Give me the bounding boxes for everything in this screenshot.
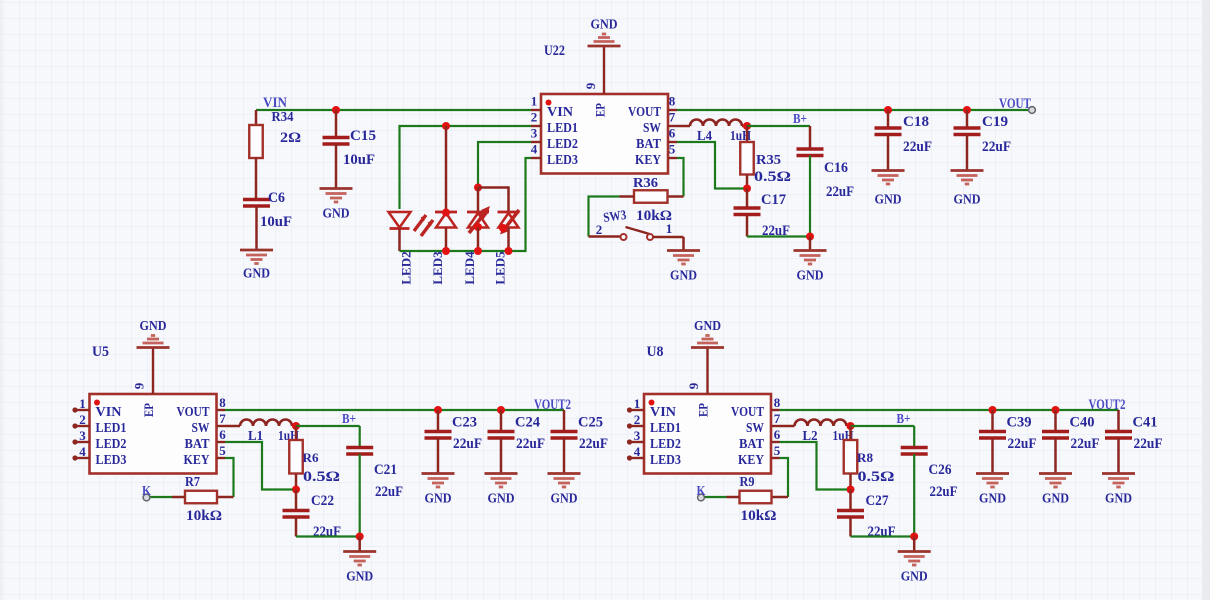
svg-text:10uF: 10uF: [260, 214, 292, 230]
svg-text:VIN: VIN: [547, 105, 573, 120]
svg-text:1: 1: [531, 94, 538, 109]
svg-text:GND: GND: [875, 193, 902, 208]
wire R6 top lead: [295, 426, 298, 440]
LED D3 (pointing up): [435, 212, 457, 228]
wire KEY net (U5): [225, 458, 234, 497]
ground GND under C21: [343, 552, 376, 566]
junction C40 tap: [1052, 406, 1060, 414]
wire R35 bottom lead: [746, 175, 749, 189]
junction LED2 net split: [474, 184, 482, 192]
svg-text:C19: C19: [982, 114, 1008, 130]
svg-text:L2: L2: [803, 428, 818, 443]
LED D5 (pointing up): [498, 212, 520, 228]
svg-text:C15: C15: [350, 128, 376, 144]
svg-text:LED3: LED3: [547, 153, 578, 168]
resistor R6: [289, 440, 303, 474]
capacitor C26: [901, 448, 928, 455]
svg-text:U5: U5: [92, 344, 109, 360]
port K port (U8): [698, 494, 705, 501]
svg-text:C21: C21: [374, 462, 397, 478]
svg-text:10uF: 10uF: [343, 152, 375, 168]
svg-text:C40: C40: [1070, 415, 1095, 431]
ground GND under C25: [548, 474, 581, 488]
wire R34-C6 lead: [255, 158, 258, 199]
wire L2 output lead: [847, 425, 851, 428]
wire L1 input lead: [225, 425, 240, 428]
svg-text:10kΩ: 10kΩ: [186, 508, 222, 524]
junction LED1 net / D2: [442, 122, 450, 130]
junction C39 tap: [989, 406, 997, 414]
svg-text:2: 2: [531, 110, 538, 125]
svg-text:LED1: LED1: [650, 421, 681, 436]
wire R36 left lead: [620, 195, 635, 198]
junction U8 SW node: [847, 422, 855, 430]
U5 pin stubs left (unconnected): [72, 407, 89, 460]
wire LED1 net: [400, 126, 532, 209]
wire C21 top wire: [359, 426, 361, 447]
svg-text:VOUT: VOUT: [177, 405, 211, 420]
svg-text:2: 2: [79, 412, 86, 427]
wire D3 lead: [477, 188, 480, 212]
wire R36 right lead: [668, 195, 684, 198]
wire C22 bottom lead: [295, 517, 298, 537]
svg-text:R7: R7: [185, 474, 200, 489]
wire C40 bottom lead: [1054, 438, 1057, 473]
U22 pin-1 marker: [546, 100, 552, 106]
svg-text:22uF: 22uF: [579, 436, 608, 452]
wire C21 bottom wire: [359, 454, 361, 537]
svg-text:C39: C39: [1007, 415, 1032, 431]
wire D4 cathode lead: [477, 228, 480, 252]
capacitor C41: [1105, 432, 1132, 439]
ground GND under C16: [794, 251, 827, 265]
wire C39 bottom lead: [991, 438, 994, 473]
capacitor C24: [488, 432, 515, 439]
wire LED2 net: [478, 142, 531, 188]
svg-text:9: 9: [686, 382, 701, 389]
svg-text:R34: R34: [272, 109, 294, 124]
svg-text:9: 9: [132, 382, 147, 389]
svg-text:GND: GND: [670, 269, 697, 284]
wire C26 top wire: [913, 426, 915, 447]
svg-text:B+: B+: [897, 411, 911, 426]
wire C41 bottom lead: [1117, 438, 1120, 473]
IC U22 body: [541, 94, 668, 174]
svg-text:3: 3: [531, 126, 538, 141]
svg-text:GND: GND: [694, 319, 721, 334]
wire R36-SW3 net: [589, 197, 620, 237]
svg-text:C17: C17: [761, 192, 786, 208]
svg-text:4: 4: [634, 444, 641, 459]
port VOUT port: [1029, 107, 1036, 114]
port K port (U5): [143, 494, 150, 501]
svg-text:C23: C23: [452, 415, 477, 431]
LED D4 (pointing up): [467, 212, 489, 228]
capacitor C22: [283, 511, 310, 518]
junction D3 top: [442, 209, 450, 217]
ground GND under SW3: [667, 251, 700, 265]
wire B+ net (U8): [851, 425, 915, 427]
junction return/D3: [442, 247, 450, 255]
wire C18 bottom lead: [887, 135, 890, 171]
svg-text:10kΩ: 10kΩ: [741, 508, 777, 524]
wire LED return net: [400, 158, 532, 251]
wire C17-C16 gnd link: [747, 235, 810, 237]
svg-text:1: 1: [79, 396, 86, 411]
svg-text:C24: C24: [515, 415, 540, 431]
svg-text:6: 6: [669, 126, 676, 141]
svg-text:K: K: [142, 484, 151, 499]
junction C16/C17 gnd node: [806, 233, 814, 241]
resistor R8: [844, 440, 858, 474]
svg-text:5: 5: [669, 142, 676, 157]
svg-text:1: 1: [666, 221, 673, 236]
wire U5 VOUT net: [225, 409, 564, 411]
LED D2 light arrows: [414, 215, 433, 236]
resistor R9: [740, 491, 772, 504]
svg-text:7: 7: [219, 411, 226, 426]
svg-text:22uF: 22uF: [1071, 436, 1100, 452]
U5 top pin lead: [152, 348, 154, 394]
svg-text:C6: C6: [268, 190, 285, 206]
svg-text:3: 3: [79, 428, 86, 443]
svg-text:EP: EP: [142, 403, 156, 417]
inductor L2: [795, 420, 847, 426]
svg-text:LED2: LED2: [547, 137, 578, 152]
svg-text:BAT: BAT: [739, 437, 765, 452]
svg-text:EP: EP: [594, 103, 608, 117]
wire gnd lead (U8): [913, 537, 916, 552]
svg-text:8: 8: [669, 94, 676, 109]
svg-text:VOUT2: VOUT2: [534, 397, 571, 413]
junction D4 bottom: [474, 223, 482, 231]
wire SW3-GND lead: [682, 237, 685, 250]
svg-text:GND: GND: [797, 269, 824, 284]
svg-text:1: 1: [634, 396, 641, 411]
wire D4 lead: [478, 188, 509, 212]
svg-text:C22: C22: [311, 493, 334, 509]
svg-text:22uF: 22uF: [1008, 436, 1037, 452]
ground GND under C18: [872, 171, 905, 185]
wire R7 left lead: [172, 496, 185, 499]
junction C24 tap: [497, 406, 505, 414]
svg-text:GND: GND: [901, 570, 928, 585]
svg-text:B+: B+: [793, 111, 807, 126]
junction R35/C17/BAT: [743, 185, 751, 193]
capacitor C21: [346, 448, 373, 455]
svg-text:0.5Ω: 0.5Ω: [754, 169, 791, 185]
svg-text:GND: GND: [243, 267, 270, 282]
wire C40 top lead: [1054, 410, 1057, 431]
wire R6 bottom lead: [295, 474, 298, 490]
svg-text:R9: R9: [740, 474, 755, 489]
svg-text:LED2: LED2: [96, 437, 127, 452]
svg-text:LED3: LED3: [430, 251, 445, 285]
wire VOUT net: [677, 109, 1030, 111]
ground GND under C26: [898, 552, 931, 566]
capacitor C18: [875, 128, 902, 135]
svg-text:5: 5: [219, 443, 226, 458]
ground GND under C15: [320, 189, 353, 203]
svg-text:LED1: LED1: [547, 121, 578, 136]
ground GND under C19: [951, 171, 984, 185]
svg-text:U8: U8: [647, 344, 664, 360]
svg-text:C18: C18: [903, 114, 929, 130]
svg-text:BAT: BAT: [185, 437, 211, 452]
U8 pin-1 marker: [649, 400, 655, 406]
IC U5 body: [90, 394, 217, 474]
svg-text:L1: L1: [248, 428, 263, 443]
wire R8 top lead: [849, 426, 852, 440]
svg-text:VOUT: VOUT: [731, 405, 765, 420]
svg-text:5: 5: [774, 443, 781, 458]
svg-text:VOUT: VOUT: [999, 96, 1031, 112]
junction C21/C22 gnd node: [356, 533, 364, 541]
capacitor C40: [1042, 432, 1069, 439]
wire R9 right lead: [772, 496, 789, 499]
wire BAT net (U5): [225, 442, 293, 490]
wire C6 bottom lead: [255, 206, 258, 250]
wire K net (U5): [150, 496, 172, 498]
svg-text:LED3: LED3: [650, 453, 681, 468]
junction C26/C27 gnd node: [910, 533, 918, 541]
svg-text:4: 4: [79, 444, 86, 459]
junction R6/C22 node: [292, 486, 300, 494]
wire C41 top lead: [1117, 410, 1120, 431]
svg-text:B+: B+: [342, 411, 356, 426]
svg-text:C41: C41: [1133, 415, 1158, 431]
capacitor C27: [837, 511, 864, 518]
wire D2 anode lead: [445, 126, 448, 212]
wire D5 cathode lead: [507, 228, 510, 252]
wire B+ net (U5): [296, 425, 360, 427]
wire R34 top lead: [255, 110, 258, 125]
ground GND under C23: [422, 474, 455, 488]
svg-text:6: 6: [219, 427, 226, 442]
wire C18 top lead: [887, 110, 890, 127]
wire VIN net: [256, 109, 531, 111]
wire C15 bottom lead: [335, 144, 338, 188]
ground GND above U8: [691, 336, 724, 348]
wire K net (U8): [705, 496, 727, 498]
svg-text:0.5Ω: 0.5Ω: [858, 469, 895, 485]
wire R9 left lead: [727, 496, 740, 499]
LED D2 (pointing down): [389, 212, 411, 229]
svg-text:2Ω: 2Ω: [280, 130, 301, 146]
svg-text:R6: R6: [303, 450, 320, 465]
svg-text:9: 9: [583, 82, 598, 89]
svg-text:C26: C26: [929, 462, 952, 478]
wire C17 top lead: [746, 189, 749, 208]
svg-text:LED3: LED3: [96, 453, 127, 468]
svg-text:7: 7: [669, 110, 676, 125]
wire B+ net (top): [747, 125, 810, 127]
junction return/D5: [505, 247, 513, 255]
svg-text:22uF: 22uF: [930, 484, 958, 500]
junction return/D4: [474, 247, 482, 255]
svg-text:SW: SW: [643, 121, 661, 136]
switch SW3: [589, 227, 684, 240]
svg-text:VIN: VIN: [96, 405, 122, 420]
svg-text:C27: C27: [866, 493, 889, 509]
resistor R7: [185, 491, 217, 504]
inductor L4: [690, 120, 742, 126]
wire gnd lead: [809, 237, 812, 251]
svg-text:BAT: BAT: [636, 137, 662, 152]
svg-text:KEY: KEY: [738, 453, 764, 468]
U5 pin stubs right: [217, 410, 225, 458]
svg-text:22uF: 22uF: [826, 184, 854, 200]
LED D4 arrow: [469, 206, 490, 233]
junction U5 SW node: [292, 422, 300, 430]
svg-text:LED1: LED1: [96, 421, 127, 436]
ground GND under C24: [485, 474, 518, 488]
wire R8 bottom lead: [849, 474, 852, 490]
svg-text:6: 6: [774, 427, 781, 442]
wire C15 top lead: [335, 110, 338, 137]
svg-text:VIN: VIN: [650, 405, 676, 420]
ground GND under C39: [976, 474, 1009, 488]
capacitor C19: [954, 128, 981, 135]
svg-text:EP: EP: [697, 403, 711, 417]
resistor R36: [634, 190, 668, 203]
svg-text:R8: R8: [857, 450, 874, 465]
capacitor C16: [797, 149, 824, 156]
svg-text:GND: GND: [979, 492, 1006, 507]
wire R7 right lead: [217, 496, 234, 499]
U22 pin stubs right: [668, 110, 677, 158]
wire C27 gnd link: [851, 535, 915, 537]
wire C27 bottom lead: [849, 517, 852, 537]
wire C17 bottom lead: [746, 215, 749, 237]
svg-text:C25: C25: [578, 415, 603, 431]
svg-text:0.5Ω: 0.5Ω: [303, 469, 340, 485]
wire L4 input lead: [677, 125, 690, 128]
wire C39 top lead: [991, 410, 994, 431]
wire C24 bottom lead: [500, 438, 503, 473]
svg-text:GND: GND: [591, 18, 618, 33]
wire C16 bottom wire: [809, 156, 811, 237]
svg-text:LED2: LED2: [399, 251, 414, 284]
svg-text:22uF: 22uF: [1134, 436, 1163, 452]
wire KEY net (U8): [780, 458, 789, 497]
wire C22 gnd link: [296, 535, 360, 537]
wire R35 top lead: [746, 126, 749, 142]
wire C19 bottom lead: [966, 135, 969, 171]
resistor R34: [249, 125, 263, 158]
svg-text:U22: U22: [544, 43, 565, 59]
svg-text:22uF: 22uF: [982, 139, 1011, 155]
svg-text:GND: GND: [140, 319, 167, 334]
capacitor C39: [979, 432, 1006, 439]
ground GND under C41: [1102, 474, 1135, 488]
wire C22 top lead: [295, 490, 298, 510]
svg-text:GND: GND: [1105, 492, 1132, 507]
IC U8 body: [644, 394, 771, 474]
capacitor C25: [551, 432, 578, 439]
svg-text:SW3: SW3: [602, 207, 627, 225]
capacitor C6: [243, 200, 270, 207]
capacitor C23: [425, 432, 452, 439]
resistor R35: [740, 142, 754, 175]
svg-text:VOUT2: VOUT2: [1089, 397, 1126, 413]
wire C25 bottom lead: [563, 438, 566, 473]
junction R8/C27 node: [847, 486, 855, 494]
svg-text:R36: R36: [633, 175, 658, 190]
junction SW node: [743, 122, 751, 130]
U22 top pin lead: [603, 47, 605, 94]
svg-text:7: 7: [774, 411, 781, 426]
wire C24 top lead: [500, 410, 503, 431]
ground GND above U5: [137, 336, 170, 348]
wire D2 cathode lead: [398, 229, 401, 252]
svg-text:LED5: LED5: [493, 251, 508, 285]
capacitor C15: [323, 138, 350, 145]
svg-text:8: 8: [219, 395, 226, 410]
svg-text:22uF: 22uF: [375, 484, 403, 500]
svg-text:22uF: 22uF: [903, 139, 932, 155]
svg-text:GND: GND: [346, 570, 373, 585]
junction D5 bottom: [499, 224, 507, 232]
wire L4 output lead: [742, 125, 747, 128]
wire C25 top lead: [563, 410, 566, 431]
capacitor C17: [734, 208, 761, 215]
svg-text:C16: C16: [824, 160, 848, 176]
svg-text:GND: GND: [323, 207, 350, 222]
U8 pin stubs right: [772, 410, 780, 458]
svg-text:KEY: KEY: [635, 153, 661, 168]
svg-text:GND: GND: [954, 193, 981, 208]
wire C23 top lead: [437, 410, 440, 431]
wire D3 cathode lead: [445, 228, 448, 252]
LED D5 arrow: [500, 210, 519, 235]
svg-text:22uF: 22uF: [516, 436, 545, 452]
svg-text:K: K: [697, 484, 706, 499]
svg-text:22uF: 22uF: [453, 436, 482, 452]
svg-text:R35: R35: [756, 152, 781, 167]
junction C23 tap: [434, 406, 442, 414]
svg-text:VOUT: VOUT: [628, 105, 662, 120]
svg-text:SW: SW: [192, 421, 210, 436]
wire L2 input lead: [780, 425, 795, 428]
svg-text:3: 3: [634, 428, 641, 443]
svg-text:4: 4: [531, 142, 538, 157]
svg-text:KEY: KEY: [184, 453, 210, 468]
wire C23 bottom lead: [437, 438, 440, 473]
svg-text:GND: GND: [425, 492, 452, 507]
svg-text:2: 2: [634, 412, 641, 427]
wire C27 top lead: [849, 490, 852, 510]
U22 pin stubs left: [531, 110, 541, 158]
svg-text:LED4: LED4: [462, 251, 477, 285]
wire C26 bottom wire: [913, 454, 915, 537]
svg-text:GND: GND: [551, 492, 578, 507]
svg-text:2: 2: [596, 222, 603, 237]
svg-text:8: 8: [774, 395, 781, 410]
U8 pin stubs left (unconnected): [627, 407, 644, 460]
ground GND under C40: [1039, 474, 1072, 488]
inductor L1: [240, 420, 292, 426]
junction VIN/C15: [332, 106, 340, 114]
wire C16 top lead: [809, 126, 812, 148]
U8 top pin lead: [706, 348, 708, 394]
svg-text:SW: SW: [746, 421, 764, 436]
wire L1 output lead: [292, 425, 296, 428]
U5 pin-1 marker: [94, 400, 100, 406]
junction VOUT/C19: [963, 106, 971, 114]
wire BAT net: [677, 142, 744, 189]
wire gnd lead (U5): [358, 537, 361, 552]
